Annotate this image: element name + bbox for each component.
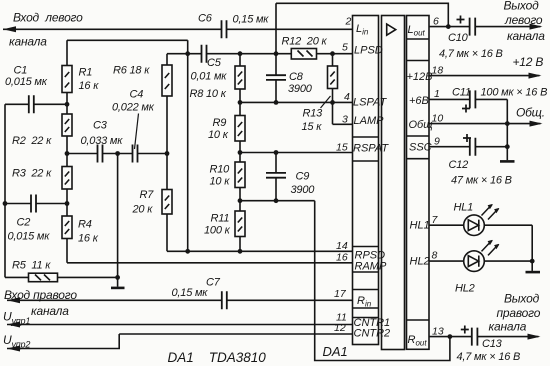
node C9 top <box>274 150 279 155</box>
svg-text:Выход: Выход <box>504 292 540 306</box>
resistor R9 <box>235 116 245 142</box>
svg-text:С3: С3 <box>93 120 108 132</box>
svg-text:С4: С4 <box>130 89 144 101</box>
wire right input to C7 <box>7 299 222 301</box>
IC middle body <box>382 16 405 350</box>
svg-text:16: 16 <box>336 252 348 264</box>
svg-text:100 к: 100 к <box>204 225 231 237</box>
svg-text:12: 12 <box>334 322 346 334</box>
wire Uupr2 to pin 12 <box>119 333 352 335</box>
plus sign C13 <box>461 326 469 334</box>
IC left column dividers <box>353 137 379 318</box>
wire pin 14 row <box>167 250 353 252</box>
svg-text:канала: канала <box>507 29 545 43</box>
node R8 top <box>238 51 243 56</box>
node C12 ground <box>505 144 510 149</box>
wire pin 9 to C12 <box>429 146 470 148</box>
LED HL1 <box>464 215 485 236</box>
wire node LPSD row left <box>167 53 202 55</box>
svg-text:HL1: HL1 <box>454 202 474 214</box>
arrow Uupr2 <box>7 346 20 352</box>
wire pin 4 row <box>240 101 353 103</box>
wire C1 row <box>5 103 67 105</box>
LED HL1 light arrows <box>482 204 500 220</box>
capacitor C10 <box>470 18 476 36</box>
svg-text:0,15 мк: 0,15 мк <box>233 14 270 26</box>
node C9 bottom <box>274 198 279 203</box>
arrow right input <box>7 297 20 303</box>
svg-text:4,7 мк × 16 В: 4,7 мк × 16 В <box>439 48 503 60</box>
svg-text:+12 В: +12 В <box>513 55 544 69</box>
svg-text:RSPAT: RSPAT <box>353 143 389 155</box>
leader line R13 <box>321 96 331 108</box>
capacitor C5 <box>202 45 207 63</box>
svg-text:3900: 3900 <box>288 83 313 95</box>
svg-text:14: 14 <box>336 240 348 252</box>
capacitor C13 <box>472 328 478 346</box>
wire R13 column <box>332 54 334 125</box>
svg-text:С8: С8 <box>289 71 304 83</box>
arrow Uupr1 <box>7 322 20 328</box>
ground C12 <box>500 160 515 163</box>
svg-text:CNTR2: CNTR2 <box>354 328 391 340</box>
svg-text:17: 17 <box>334 288 347 300</box>
wire feedback vertical C8 <box>275 3 277 102</box>
svg-text:R8 10 к: R8 10 к <box>190 88 227 100</box>
svg-text:С12: С12 <box>449 159 469 171</box>
svg-text:С9: С9 <box>296 171 310 183</box>
svg-text:R11: R11 <box>211 213 230 225</box>
LED HL2 light arrows <box>482 240 500 256</box>
node pin6 feedback <box>446 24 451 29</box>
node LED ground <box>530 259 535 264</box>
svg-text:R2 22 к: R2 22 к <box>12 135 52 147</box>
resistor R5 <box>29 273 58 282</box>
svg-text:LPSD: LPSD <box>354 45 383 57</box>
svg-text:С6: С6 <box>198 13 213 25</box>
resistor R8 <box>235 66 245 89</box>
resistor R2 <box>62 114 72 136</box>
svg-text:R7: R7 <box>140 189 155 201</box>
svg-text:+12В: +12В <box>407 71 433 83</box>
arrow common <box>530 121 543 127</box>
svg-text:R4: R4 <box>78 219 92 231</box>
wire LED ground vertical <box>531 225 533 271</box>
svg-text:0,015 мк: 0,015 мк <box>8 231 51 243</box>
capacitor C2 <box>31 195 36 213</box>
wire R5 node vertical <box>117 154 119 287</box>
wire pin 6 to C10 <box>429 26 470 28</box>
node bias rail pin14 <box>185 249 190 254</box>
svg-text:С11: С11 <box>452 87 471 99</box>
resistor R10 <box>235 162 245 188</box>
node C8 bottom <box>274 100 279 105</box>
wire pin 15 row <box>240 152 353 154</box>
svg-text:Вход правого: Вход правого <box>4 288 77 302</box>
svg-text:47 мк × 16 В: 47 мк × 16 В <box>451 175 512 187</box>
wire left edge vertical <box>4 104 6 277</box>
wire HL1 right <box>485 224 533 226</box>
wire C13 to output <box>477 336 538 338</box>
wire node to bottom rail <box>315 201 450 361</box>
resistor R3 <box>62 167 72 190</box>
node R1 bottom C1 <box>65 102 70 107</box>
plus sign C11 <box>462 105 470 113</box>
svg-text:0,022 мк: 0,022 мк <box>112 102 155 114</box>
svg-text:0,01 мк: 0,01 мк <box>191 71 228 83</box>
svg-text:С10: С10 <box>448 32 469 44</box>
node R13 top <box>330 51 335 56</box>
node C2 left <box>3 201 8 206</box>
resistor R12 <box>291 49 316 60</box>
node common C11 <box>505 121 510 126</box>
svg-text:4: 4 <box>344 91 350 103</box>
svg-text:100 мк × 16 В: 100 мк × 16 В <box>481 87 548 99</box>
svg-text:16 к: 16 к <box>78 233 99 245</box>
wire left input to C6 <box>3 28 222 30</box>
wire R5 row <box>5 276 118 278</box>
svg-text:LAMP: LAMP <box>354 115 385 127</box>
svg-text:С7: С7 <box>206 277 221 289</box>
svg-text:+6В: +6В <box>409 95 429 107</box>
svg-text:R10: R10 <box>210 164 231 176</box>
svg-text:R5 11 к: R5 11 к <box>12 260 51 272</box>
resistor R4 <box>62 216 72 239</box>
ground LED <box>526 271 541 274</box>
svg-text:0,015 мк: 0,015 мк <box>5 76 48 88</box>
wire pin 1 to C11 <box>429 98 470 100</box>
wire pin 16 row <box>67 262 353 264</box>
svg-text:С2: С2 <box>17 217 31 229</box>
wire C11 C12 ground vertical <box>506 99 508 160</box>
svg-text:9: 9 <box>434 136 440 148</box>
svg-text:0,033 мк: 0,033 мк <box>81 135 124 147</box>
wire pin 7 to HL1 <box>429 224 464 226</box>
svg-text:RAMP: RAMP <box>355 261 387 273</box>
svg-text:4,7 мк × 16 В: 4,7 мк × 16 В <box>457 351 521 363</box>
node R8 bottom <box>238 100 243 105</box>
wire C2 row <box>5 203 67 205</box>
wire C7 to pin 17 <box>227 299 353 301</box>
leader line C4 <box>135 114 139 150</box>
svg-text:3900: 3900 <box>291 184 316 196</box>
svg-text:18: 18 <box>432 65 444 77</box>
wire C9 vertical <box>275 153 277 201</box>
node C8 top <box>274 51 279 56</box>
capacitor C11 <box>470 90 476 108</box>
svg-text:10: 10 <box>432 113 444 125</box>
capacitor C4 <box>133 145 138 163</box>
svg-text:10 к: 10 к <box>210 176 231 188</box>
svg-text:HL2: HL2 <box>410 256 430 268</box>
wire pin 13 to C13 <box>429 336 472 338</box>
wire R1 top link <box>67 39 188 41</box>
wire rail bias vertical <box>187 40 189 251</box>
svg-text:13: 13 <box>432 326 444 338</box>
svg-text:R13: R13 <box>303 108 324 120</box>
capacitor C6 <box>222 20 227 38</box>
svg-text:R12 20 к: R12 20 к <box>282 36 328 48</box>
node C4 right R6 rail <box>165 151 170 156</box>
svg-text:LSPAT: LSPAT <box>353 97 387 109</box>
capacitor C7 <box>222 291 227 309</box>
node R2 R3 C3 <box>65 151 70 156</box>
wire pin 18 +12V <box>429 75 540 77</box>
svg-text:правого: правого <box>497 306 541 320</box>
wire Uupr1 to pin 11 <box>7 324 353 326</box>
svg-text:R9: R9 <box>213 117 227 129</box>
node pin13 C13 <box>448 334 453 339</box>
node R3 bottom C2 <box>65 201 70 206</box>
wire C6 to pin 2 <box>227 28 353 30</box>
wire C10 to output <box>475 26 540 28</box>
IC right column dividers <box>407 39 430 320</box>
capacitor C9 <box>266 173 286 178</box>
node R13 bottom <box>330 100 335 105</box>
svg-text:С5: С5 <box>207 57 222 69</box>
node R11 bottom <box>238 249 243 254</box>
svg-text:DA1: DA1 <box>323 344 348 359</box>
arrow +12V <box>529 73 542 79</box>
svg-text:канала: канала <box>31 304 69 318</box>
wire R10 C9 node row <box>240 200 315 202</box>
wire C3 C4 row <box>67 153 167 155</box>
wire R12 to pin 5 <box>317 53 353 55</box>
capacitor C1 <box>29 95 34 113</box>
wire node LPSD row mid <box>207 53 292 55</box>
LED HL2 <box>464 251 485 272</box>
svg-text:Вход левого: Вход левого <box>13 11 83 25</box>
node C3 C4 junction <box>115 151 120 156</box>
svg-text:1: 1 <box>434 88 440 100</box>
wire C11 right <box>475 98 507 100</box>
capacitor C3 <box>98 145 103 163</box>
svg-text:8: 8 <box>432 250 438 262</box>
svg-text:Общ.: Общ. <box>516 106 545 120</box>
capacitor C8 <box>266 75 286 80</box>
svg-text:левого: левого <box>504 13 543 27</box>
resistor R6 <box>162 65 172 96</box>
wire pin 3 stub <box>333 123 353 125</box>
svg-text:Общ: Общ <box>409 119 433 131</box>
svg-text:10 к: 10 к <box>208 129 229 141</box>
resistor R11 <box>235 211 245 237</box>
wire C12 right <box>475 146 507 148</box>
wire HL2 right <box>485 260 533 262</box>
wire top feedback rail <box>276 3 448 26</box>
wire pin 8 to HL2 <box>429 260 464 262</box>
capacitor C12 <box>470 138 476 156</box>
node R1 link / bias rail <box>185 51 190 56</box>
svg-text:Выход: Выход <box>504 0 540 13</box>
svg-text:20 к: 20 к <box>132 204 154 216</box>
svg-text:С1: С1 <box>14 65 28 77</box>
svg-text:канала: канала <box>489 320 527 334</box>
wire pin 10 common <box>429 123 541 125</box>
svg-text:HL2: HL2 <box>455 283 475 295</box>
svg-text:DA1 TDA3810: DA1 TDA3810 <box>168 350 267 365</box>
svg-text:15: 15 <box>336 142 348 154</box>
svg-text:HL1: HL1 <box>410 220 430 232</box>
svg-text:15 к: 15 к <box>302 121 323 133</box>
svg-text:SSC: SSC <box>409 142 432 154</box>
wire R1 column <box>66 40 68 262</box>
resistor R13 <box>328 66 338 89</box>
wire Uupr2 left <box>7 334 119 349</box>
plus sign C10 <box>457 16 465 24</box>
svg-text:2: 2 <box>345 16 352 28</box>
svg-text:3: 3 <box>342 114 348 126</box>
op-amp U1 IC left pin column <box>353 16 379 345</box>
svg-text:канала: канала <box>9 35 47 49</box>
svg-text:R6 18 к: R6 18 к <box>113 65 150 77</box>
svg-text:6: 6 <box>433 16 439 28</box>
resistor R1 <box>62 66 72 93</box>
svg-text:5: 5 <box>342 42 348 54</box>
plus sign C12 <box>463 134 471 142</box>
ground R5 <box>111 287 125 290</box>
IC amplifier triangle <box>387 24 396 35</box>
svg-text:С13: С13 <box>482 338 503 350</box>
svg-text:R3 22 к: R3 22 к <box>12 168 52 180</box>
IC right pin column <box>407 16 430 350</box>
svg-text:0,15 мк: 0,15 мк <box>172 287 209 299</box>
wire mid resistor column <box>239 54 241 252</box>
svg-text:16 к: 16 к <box>79 80 100 92</box>
node R9 bottom <box>238 150 243 155</box>
node R10 bottom <box>238 198 243 203</box>
arrow left input <box>3 26 16 32</box>
arrow output left <box>530 24 543 30</box>
wire R6 R7 column <box>166 54 168 252</box>
resistor R7 <box>162 190 172 215</box>
arrow output right <box>528 334 541 340</box>
svg-text:R1: R1 <box>79 67 93 79</box>
node R5 right <box>115 275 120 280</box>
